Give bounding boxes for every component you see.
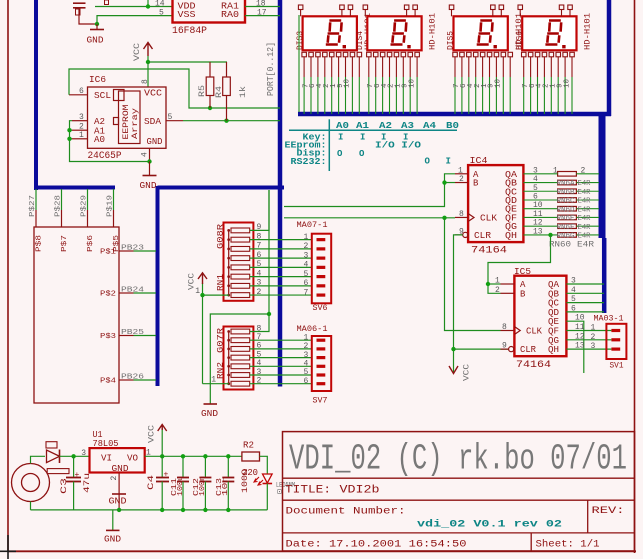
display DIS5 HD-H101 body	[454, 16, 508, 50]
svg-text:CLK: CLK	[480, 213, 498, 223]
svg-text:3: 3	[571, 277, 576, 286]
svg-text:IC6: IC6	[89, 75, 106, 85]
IC IC5 74164 body	[514, 276, 566, 357]
frame border bottom	[8, 550, 636, 552]
wire RA0 to port bus	[245, 15, 280, 17]
svg-text:Sheet: 1/1: Sheet: 1/1	[536, 539, 600, 551]
svg-text:CLR: CLR	[474, 231, 492, 241]
wire diode to C3 node	[60, 455, 90, 457]
svg-text:24C65P: 24C65P	[88, 151, 122, 162]
bus PORT vertical x=280	[278, 0, 283, 387]
svg-text:DIS5: DIS5	[447, 31, 456, 50]
P connector right pin P$4	[119, 379, 134, 381]
RN2 resistor element 5	[231, 364, 250, 369]
wire SDA net to port bus	[183, 120, 280, 122]
svg-text:4: 4	[304, 360, 309, 369]
svg-text:6: 6	[304, 279, 309, 288]
svg-text:⊡: ⊡	[277, 488, 282, 497]
svg-text:78L05: 78L05	[93, 439, 119, 449]
svg-text:8: 8	[459, 210, 464, 219]
wire CLR net IC4 to IC5 and VCC	[454, 235, 463, 372]
display DIS3 bottom pins and wires to bus	[302, 52, 307, 57]
diode value box	[47, 469, 69, 474]
display DIS4 HD-H101 body	[367, 16, 421, 50]
RN60 resistor row 7 body	[558, 224, 577, 229]
RN60 row 6 wires	[523, 216, 557, 218]
IC6 inner EEPROM array outline	[119, 91, 141, 144]
svg-text:VCC: VCC	[133, 43, 142, 61]
RN2 resistor element 2	[231, 338, 250, 343]
junction A1	[67, 128, 71, 132]
display DIS5 seven segment digit 8	[477, 21, 493, 45]
svg-text:E4R: E4R	[578, 224, 592, 232]
microcontroller 16F84P body	[173, 0, 246, 23]
svg-text:RA0: RA0	[221, 10, 239, 20]
IC6 inner notch top	[114, 90, 125, 101]
svg-text:P$27: P$27	[29, 195, 37, 217]
svg-text:P$7: P$7	[61, 235, 69, 252]
svg-text:E4R: E4R	[577, 241, 594, 250]
RN2 resistor element 7	[231, 381, 250, 386]
svg-text:vdi_02 V0.1 rev 02: vdi_02 V0.1 rev 02	[417, 519, 562, 531]
resistor R4 body	[223, 77, 231, 96]
svg-text:EEPROM: EEPROM	[122, 104, 131, 139]
REV divider	[587, 500, 589, 533]
svg-text:CLR: CLR	[520, 345, 537, 355]
svg-text:1: 1	[591, 324, 596, 333]
svg-text:14: 14	[155, 0, 165, 9]
svg-text:3: 3	[304, 251, 309, 260]
svg-text:VI: VI	[101, 454, 112, 464]
RN1 rows 2-8 wires to SV6	[250, 239, 312, 241]
svg-text:I: I	[338, 133, 343, 143]
title block divider line 2	[283, 499, 635, 501]
svg-text:1: 1	[304, 333, 309, 342]
svg-text:DIS6: DIS6	[515, 31, 524, 50]
RN60 row 2 wires	[523, 182, 557, 184]
IC6 inner notch mid	[114, 118, 119, 125]
RN2 resistor element 6	[231, 373, 250, 378]
power jack inner circle	[22, 474, 40, 492]
svg-text:2: 2	[110, 476, 119, 481]
svg-text:12: 12	[575, 332, 585, 341]
svg-text:P$3: P$3	[100, 333, 117, 341]
svg-text:GND: GND	[201, 409, 218, 419]
RN60 resistor row 6 body	[558, 215, 577, 220]
svg-text:6: 6	[304, 377, 309, 386]
svg-text:VDI2b: VDI2b	[340, 485, 380, 497]
junction vdd/vcc	[146, 4, 150, 8]
bus vertical right wide (RN60)	[599, 112, 606, 238]
capacitor C12 100n	[204, 456, 206, 477]
RN60 resistor row 8 body	[558, 233, 577, 238]
wire serial data net from bus to A/B	[284, 174, 455, 207]
P connector top pin P$5	[113, 210, 115, 227]
capacitor C3 electrolytic	[73, 456, 75, 477]
svg-text:IC4: IC4	[470, 156, 488, 166]
svg-text:6: 6	[571, 304, 576, 313]
junction CLR IC5	[451, 347, 455, 351]
title block divider line 3	[283, 532, 635, 534]
svg-text:I: I	[360, 133, 365, 143]
supply symbol VCC down-arrow at CLR net	[449, 366, 458, 374]
svg-text:1: 1	[495, 277, 500, 286]
svg-text:11: 11	[575, 323, 585, 332]
capacitor label box	[76, 9, 81, 15]
svg-text:MA06-1: MA06-1	[297, 324, 328, 334]
IC IC6 24C65P body	[88, 87, 167, 148]
svg-text:4: 4	[571, 286, 576, 295]
svg-text:10: 10	[344, 78, 352, 88]
svg-text:RN6E: RN6E	[557, 215, 575, 223]
wire VCC down to RN2	[202, 295, 204, 384]
IC5 QF QG QH wires to SV1	[566, 330, 611, 332]
svg-text:VSS: VSS	[178, 10, 196, 20]
RN1 row1 wire to bus	[250, 190, 269, 230]
RN2 pin1 wire	[203, 383, 230, 385]
frame border left	[7, 0, 9, 551]
svg-text:3: 3	[81, 449, 86, 458]
display DIS6 top pins	[518, 5, 523, 10]
RN60 row 5 wires	[523, 208, 557, 210]
junction RN1 pin1	[200, 293, 204, 297]
svg-text:100u: 100u	[177, 476, 185, 496]
wire jack to diode	[31, 456, 46, 463]
RN60 row 3 wires	[523, 190, 557, 192]
IC4 clock wedge	[468, 213, 474, 221]
svg-text:SCL: SCL	[94, 91, 111, 101]
svg-text:2: 2	[591, 333, 596, 342]
IC5 QE wire stub down	[566, 321, 583, 373]
RN1 internal common bar	[228, 230, 230, 295]
wire RA1 to port bus	[245, 6, 280, 8]
IC4 left pin stubs	[455, 173, 468, 175]
RN60 row 7 wires	[523, 225, 557, 227]
ground symbol IC6	[149, 162, 151, 176]
svg-text:+: +	[75, 471, 80, 480]
svg-text:2: 2	[581, 166, 586, 175]
svg-text:E4R: E4R	[578, 198, 592, 206]
wire jack to bottom rail	[30, 502, 32, 510]
SV7 pins	[317, 339, 326, 342]
svg-text:Date: 17.10.2001 16:54:50: Date: 17.10.2001 16:54:50	[286, 540, 467, 551]
svg-text:74164: 74164	[471, 246, 507, 257]
svg-text:E4R: E4R	[578, 189, 592, 197]
bus horizontal under displays	[298, 112, 611, 117]
svg-text:PB26: PB26	[121, 374, 145, 382]
svg-text:Document Number:: Document Number:	[286, 506, 406, 518]
capacitor C4 electrolytic	[161, 456, 163, 477]
RN60 row 8 wires	[523, 234, 557, 236]
svg-text:MA03-1: MA03-1	[594, 315, 624, 324]
svg-text:VCC: VCC	[463, 364, 472, 381]
svg-text:5: 5	[304, 368, 309, 377]
svg-text:DIS3: DIS3	[296, 31, 305, 50]
RN60 row 1 wires	[523, 173, 557, 175]
wire capacitor to gnd junction	[79, 8, 97, 24]
svg-text:5: 5	[159, 9, 164, 18]
capacitor C11 100u	[182, 456, 184, 477]
svg-text:B: B	[473, 179, 479, 189]
LED D2	[263, 474, 273, 483]
bus horizontal upper-left segment	[34, 186, 115, 190]
wire to RN2 GND	[210, 314, 269, 404]
svg-text:2: 2	[495, 286, 500, 295]
junction CLK cascade	[442, 216, 446, 220]
RN60 resistor row 3 body	[558, 189, 577, 194]
pin 3 A2 stub	[72, 120, 88, 122]
corner crop mark bottom-left	[7, 535, 9, 559]
svg-text:10n: 10n	[222, 476, 230, 496]
svg-text:P$4: P$4	[100, 378, 117, 386]
wire VCC into IC6 pin 8	[147, 62, 149, 87]
wire vss net	[97, 16, 172, 24]
RN1 resistor element 3	[231, 246, 250, 251]
svg-text:RS232:: RS232:	[291, 157, 327, 167]
SV1 pins	[611, 329, 620, 332]
svg-text:QH: QH	[505, 231, 517, 241]
svg-text:GND: GND	[140, 181, 157, 191]
capacitor C2 top-left plate upper	[73, 2, 86, 4]
display DIS4 top pins	[363, 5, 368, 10]
svg-text:5: 5	[304, 270, 309, 279]
SV6 pins	[317, 238, 326, 241]
svg-text:2: 2	[459, 175, 464, 184]
svg-text:SV6: SV6	[313, 303, 328, 313]
svg-text:47u: 47u	[83, 473, 92, 493]
svg-text:HD-H101: HD-H101	[429, 13, 438, 50]
IC IC4 74164 body	[468, 165, 523, 242]
display DIS5 bottom pins and wires to bus	[453, 52, 458, 57]
junction IC6 GND	[147, 159, 151, 163]
capacitor C2 lower plate	[73, 7, 86, 9]
display DIS5 decimal point	[494, 45, 497, 48]
svg-text:PORT[0..12]: PORT[0..12]	[266, 42, 276, 96]
supply symbol VCC RN1	[202, 283, 204, 295]
wire vdd net	[95, 6, 172, 8]
svg-text:E4R: E4R	[578, 233, 592, 241]
svg-text:P$2: P$2	[100, 291, 116, 299]
RN1 resistor element 7	[231, 283, 250, 288]
display DIS6 HD-H101 body	[522, 16, 576, 50]
display DIS6 bottom pins and wires to bus	[522, 52, 527, 57]
svg-text:2: 2	[304, 342, 309, 351]
svg-text:TITLE:: TITLE:	[285, 485, 331, 497]
RN1 resistor element 8	[231, 293, 250, 298]
svg-text:5: 5	[168, 113, 173, 122]
ground symbol top-left	[96, 24, 98, 30]
svg-text:HD-H101: HD-H101	[584, 13, 593, 50]
svg-text:R5: R5	[198, 85, 207, 97]
svg-text:1: 1	[211, 376, 216, 385]
diode D1	[47, 450, 60, 463]
junction GND tap	[267, 312, 271, 316]
svg-text:RN6F: RN6F	[557, 224, 575, 232]
svg-text:100n: 100n	[199, 476, 207, 496]
RN2 internal common bar	[228, 332, 230, 384]
svg-text:7: 7	[304, 288, 309, 297]
svg-text:P$29: P$29	[81, 195, 89, 217]
connector SV6 MA07-1 body	[312, 234, 331, 304]
wire QH cascade to IC5 A/B	[488, 235, 551, 293]
svg-text:100Ω: 100Ω	[241, 469, 250, 493]
svg-text:R2: R2	[243, 440, 254, 450]
svg-text:RN6D: RN6D	[557, 206, 575, 214]
IC4 CLR inversion bubble	[463, 232, 468, 237]
junction at gnd node	[95, 22, 99, 26]
RN1 resistor element 2	[231, 237, 250, 242]
svg-text:1: 1	[553, 166, 558, 175]
display DIS3 decimal point	[343, 45, 346, 48]
svg-text:P$6: P$6	[87, 234, 95, 252]
svg-text:RN6G: RN6G	[557, 233, 575, 241]
junction VCC node IC6	[146, 60, 150, 64]
pin 4 GND bottom stub	[149, 148, 151, 161]
bottom ground rail	[31, 509, 268, 511]
svg-text:3: 3	[591, 342, 596, 351]
svg-text:CLK: CLK	[526, 327, 543, 337]
RN60 row 4 wires	[523, 199, 557, 201]
svg-text:6: 6	[79, 87, 84, 96]
svg-text:QH: QH	[548, 345, 559, 355]
svg-text:5: 5	[571, 295, 576, 304]
svg-text:P$8: P$8	[36, 235, 44, 252]
svg-text:9: 9	[502, 342, 507, 351]
junction A/B tie	[442, 180, 446, 184]
svg-text:GND: GND	[109, 497, 127, 507]
RN2 row1 wire to bus	[250, 190, 269, 332]
display DIS3 top pins	[298, 5, 303, 10]
svg-text:I/O I/O: I/O I/O	[375, 141, 422, 151]
svg-text:GND: GND	[112, 464, 129, 474]
svg-text:1: 1	[79, 131, 84, 140]
svg-text:18: 18	[256, 0, 266, 9]
svg-text:IC5: IC5	[514, 267, 531, 277]
resistor network RN1 body	[224, 223, 254, 301]
svg-text:P$28: P$28	[55, 195, 63, 217]
pin 2 A1 stub	[72, 129, 88, 131]
connector SV7 MA06-1 body	[312, 336, 331, 391]
frame border right	[634, 0, 636, 553]
resistor R4 pins	[226, 62, 228, 77]
supply symbol VCC for IC6	[147, 56, 149, 64]
display DIS4 decimal point	[407, 45, 410, 48]
wire R2 to LED	[260, 456, 268, 474]
resistor R5 body	[206, 77, 214, 96]
svg-text:SV7: SV7	[313, 396, 328, 406]
pin 1 A0 stub	[72, 138, 88, 140]
RN60 resistor row 5 body	[558, 206, 577, 211]
wire CLR to IC5 bubble	[454, 348, 509, 350]
svg-text:1: 1	[304, 233, 309, 242]
wire LED to ground rail	[266, 484, 268, 510]
svg-text:13: 13	[575, 342, 585, 351]
display DIS3 HD-H101 body	[303, 16, 357, 50]
P connector top pin P$8	[35, 210, 37, 227]
svg-text:VCC: VCC	[148, 425, 157, 443]
IC5 output wires QA-QD to bus	[566, 283, 604, 285]
pin 5 SDA stub	[166, 120, 183, 122]
bus vertical at x=157 along P connector	[156, 186, 160, 386]
RN2 rows 2-7 wires to SV7	[250, 339, 312, 341]
voltage regulator U1 78L05 body	[90, 448, 145, 472]
P connector right pin P$3	[119, 335, 134, 337]
svg-text:B: B	[520, 289, 526, 299]
RN2 resistor element 1	[231, 329, 250, 334]
svg-text:P$1: P$1	[100, 249, 117, 257]
svg-text:VCC: VCC	[144, 89, 163, 99]
LED emission arrows	[254, 477, 263, 485]
RN1 resistor element 4	[231, 256, 250, 261]
svg-text:O: O	[359, 149, 365, 159]
RN60 resistor row 1 body	[558, 172, 577, 177]
svg-text:+: +	[164, 471, 169, 480]
wire vcc from top edge	[147, 0, 149, 7]
RN60 resistor row 4 body	[558, 198, 577, 203]
pin 6 SCL stub	[69, 94, 88, 96]
svg-text:E4R: E4R	[578, 206, 592, 214]
display DIS3 seven segment digit 8	[326, 21, 342, 45]
svg-text:RN60: RN60	[549, 241, 571, 250]
svg-text:VDI_02 (C) rk.bo 07/01: VDI_02 (C) rk.bo 07/01	[289, 439, 627, 480]
svg-text:E4R: E4R	[578, 180, 592, 188]
svg-text:REV:: REV:	[592, 506, 625, 517]
junction VCC node	[160, 454, 164, 458]
diode label box	[46, 442, 57, 448]
P connector top pin P$6	[87, 210, 89, 227]
svg-text:R4: R4	[215, 86, 224, 98]
title block divider line 1	[283, 477, 635, 479]
wire SCL net to port bus	[69, 69, 280, 108]
title block outer box	[283, 432, 635, 551]
RN1 resistor element 5	[231, 265, 250, 270]
svg-text:PB25: PB25	[121, 329, 145, 337]
connector SV1 MA03-1 body	[606, 324, 626, 359]
supply symbol VCC main	[161, 428, 163, 456]
connector P1 body	[34, 227, 119, 403]
display DIS4 bottom pins and wires to bus	[367, 52, 372, 57]
svg-text:SDA: SDA	[144, 117, 162, 127]
svg-text:GND: GND	[104, 535, 121, 545]
capacitor C13 10n	[227, 456, 229, 477]
svg-text:PB23: PB23	[121, 245, 145, 253]
wire VCC to pullup resistors	[148, 61, 227, 63]
svg-text:2: 2	[304, 242, 309, 251]
resistor R5 pins	[209, 62, 211, 77]
svg-text:MA07-1: MA07-1	[297, 220, 328, 230]
junction R4 bottom	[224, 119, 228, 123]
svg-text:10: 10	[408, 78, 416, 88]
svg-text:16F84P: 16F84P	[172, 26, 207, 37]
display DIS6 seven segment digit 8	[545, 21, 561, 45]
IC5 CLR inversion bubble	[509, 347, 514, 352]
svg-text:RN6C: RN6C	[557, 198, 575, 206]
svg-text:RN1: RN1	[216, 274, 225, 291]
svg-text:O: O	[425, 157, 431, 167]
svg-text:8: 8	[141, 79, 150, 84]
junction R5 bottom	[208, 106, 212, 110]
table header underline	[289, 129, 457, 131]
resistor R2 body	[242, 452, 260, 461]
svg-text:A0: A0	[94, 135, 105, 145]
wire CLK net from bus	[284, 217, 455, 219]
svg-text:VO: VO	[127, 454, 138, 464]
svg-text:SV1: SV1	[610, 362, 624, 371]
display DIS5 top pins	[449, 5, 454, 10]
RN1 pin1 wire from VCC	[203, 294, 230, 296]
svg-text:C3: C3	[60, 478, 69, 494]
svg-text:C4: C4	[147, 475, 156, 490]
